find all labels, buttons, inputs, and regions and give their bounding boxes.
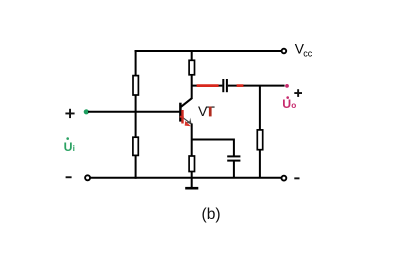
wire: collector branch vertical (Vcc to transistor) (191, 50, 193, 99)
terminal: input + (green dot) (84, 109, 89, 114)
emitter diagonal (thin) (181, 116, 191, 124)
label - (input negative) (66, 176, 72, 178)
label Ui (green) (64, 137, 75, 154)
wire: left bias branch vertical (135, 50, 137, 179)
svg-text:U: U (64, 140, 73, 154)
wire: load branch vertical (259, 86, 261, 178)
wire: capacitor to output terminal (228, 85, 285, 87)
label (b) (202, 206, 221, 223)
terminal: Vcc open circle (282, 49, 287, 54)
wire: Vcc top rail (135, 50, 282, 52)
label - (output negative) (294, 177, 299, 179)
svg-text:i: i (73, 143, 75, 153)
label + (input positive) (65, 109, 74, 118)
capacitor C2 (output coupling) (223, 79, 227, 92)
wire: collector to output capacitor (192, 85, 223, 87)
svg-text:U: U (282, 97, 291, 111)
red stroke on base bar (181, 110, 183, 124)
terminal: output - open circle (282, 176, 287, 181)
red annotation segment (left of C) (197, 84, 219, 87)
collector diagonal (181, 98, 192, 107)
emitter arrowhead (black) (186, 118, 192, 125)
resistor R2 (lower bias) (133, 137, 138, 155)
wire: bypass cap bottom lead (233, 161, 235, 177)
resistor Rc (collector) (189, 60, 194, 75)
transistor VT (NPN) (180, 98, 192, 125)
red emitter arrowhead (185, 121, 191, 126)
resistor R1 (upper bias) (133, 76, 138, 95)
terminal: input - open circle (85, 175, 90, 180)
ground (185, 187, 198, 190)
base bar (179, 103, 182, 122)
label Uo (magenta) (282, 96, 296, 111)
svg-text:cc: cc (303, 49, 313, 59)
red tick (180, 117, 184, 118)
resistor RL (load) (257, 130, 262, 150)
wire: bypass cap top lead (233, 139, 235, 156)
resistor Re (emitter) (189, 156, 194, 172)
wire: emitter node to bypass capacitor (192, 139, 234, 141)
label Vcc (295, 41, 313, 58)
wire: bottom rail (90, 177, 281, 179)
label + (output positive) (294, 89, 302, 97)
wire: input row to base (88, 111, 181, 113)
terminal: output + (magenta dot) (285, 84, 289, 88)
capacitor Ce (emitter bypass) (227, 156, 240, 160)
svg-text:o: o (291, 100, 296, 110)
red annotation segment (right of C) (237, 84, 244, 87)
svg-text:(b): (b) (202, 206, 221, 223)
wire: emitter branch vertical (191, 123, 193, 187)
label VT (198, 104, 215, 120)
red annotation over transistor emitter/base (180, 110, 191, 126)
